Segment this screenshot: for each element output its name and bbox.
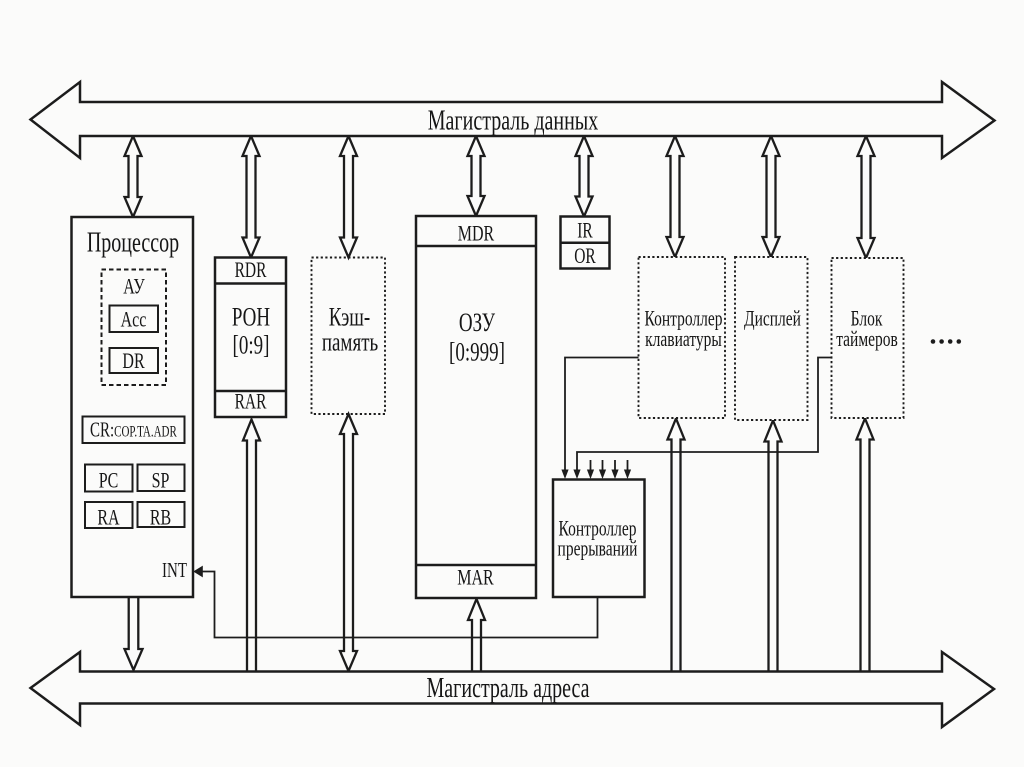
svg-text:прерываний: прерываний xyxy=(558,537,638,561)
block Блок таймеров (dashed) xyxy=(832,258,904,418)
arrow addressbus-MAR xyxy=(468,599,485,671)
register DR xyxy=(110,348,159,373)
svg-text:Магистраль адреса: Магистраль адреса xyxy=(427,673,590,704)
arrow IR-databus xyxy=(576,136,593,217)
svg-text:Acc: Acc xyxy=(121,308,147,332)
wire IRQ stub xyxy=(627,460,629,471)
register SP xyxy=(138,465,185,492)
arrow addressbus-display xyxy=(765,421,782,672)
wire interrupt-controller to INT xyxy=(198,572,598,638)
arrow MDR-databus xyxy=(468,136,485,216)
arrow display-databus xyxy=(763,136,780,257)
register RA xyxy=(85,502,133,528)
block Контроллер прерываний xyxy=(553,480,645,598)
svg-text:[0:999]: [0:999] xyxy=(449,336,505,366)
arrowhead IRQ xyxy=(561,470,568,480)
svg-text:PC: PC xyxy=(99,469,119,493)
svg-text:MDR: MDR xyxy=(458,222,494,246)
ellipsis dots xyxy=(931,339,936,344)
arrow timers-databus xyxy=(858,136,875,258)
block АУ (dashed) xyxy=(102,270,167,386)
svg-text:INT: INT xyxy=(162,559,187,582)
register PC xyxy=(85,465,133,492)
svg-text:Магистраль данных: Магистраль данных xyxy=(428,105,598,136)
svg-text:RDR: RDR xyxy=(235,259,267,283)
arrow addressbus-timers xyxy=(857,419,874,672)
svg-text:OR: OR xyxy=(574,245,596,269)
block Процессор xyxy=(72,217,194,597)
arrow RDR-databus xyxy=(243,136,260,258)
data bus (Магистраль данных) xyxy=(31,82,995,158)
svg-text:РОН: РОН xyxy=(232,301,270,331)
arrowhead IRQ xyxy=(624,470,631,480)
register CR xyxy=(83,417,185,444)
svg-text:RAR: RAR xyxy=(235,390,267,414)
arrow cache-addressbus xyxy=(340,414,357,671)
arrowhead IRQ xyxy=(573,470,580,480)
svg-text:[0:9]: [0:9] xyxy=(233,329,270,359)
svg-text:IR: IR xyxy=(577,219,593,243)
arrow processor-addressbus xyxy=(125,598,143,670)
block Дисплей (dashed) xyxy=(735,257,808,420)
svg-text:SP: SP xyxy=(152,469,170,493)
arrow addressbus-RAR xyxy=(243,420,260,672)
svg-text:таймеров: таймеров xyxy=(836,328,898,352)
arrow keyboard-databus xyxy=(667,136,684,257)
svg-text:ОЗУ: ОЗУ xyxy=(459,307,496,337)
block Кэш-память (dashed) xyxy=(312,258,386,415)
svg-text:Процессор: Процессор xyxy=(87,227,179,258)
wire IRQ stub xyxy=(614,460,616,471)
wire IRQ stub xyxy=(590,460,592,471)
register RB xyxy=(138,502,185,527)
svg-text:MAR: MAR xyxy=(457,566,493,590)
arrow cache-databus xyxy=(340,136,357,258)
svg-text:RA: RA xyxy=(97,506,119,530)
wire keyboard IRQ xyxy=(565,358,639,472)
block РОН xyxy=(215,258,286,418)
svg-text:Дисплей: Дисплей xyxy=(744,307,801,331)
arrow processor-databus xyxy=(125,136,142,217)
svg-text:DR: DR xyxy=(122,350,144,374)
address bus (Магистраль адреса) xyxy=(31,652,995,727)
arrowhead IRQ xyxy=(611,470,618,480)
register Acc xyxy=(110,306,159,333)
svg-text:RB: RB xyxy=(150,506,171,530)
block ОЗУ xyxy=(416,216,536,598)
wire IRQ stub xyxy=(602,460,604,471)
arrowhead IRQ xyxy=(587,470,594,480)
arrowhead INT xyxy=(193,566,203,578)
svg-text:память: память xyxy=(322,326,378,356)
block Контроллер клавиатуры (dashed) xyxy=(639,257,726,418)
arrow addressbus-keyboard xyxy=(668,419,685,672)
arrowhead IRQ xyxy=(599,470,606,480)
svg-text:АУ: АУ xyxy=(123,275,145,299)
wire timers IRQ xyxy=(577,358,832,472)
registers IR/OR xyxy=(561,217,610,269)
svg-text:клавиатуры: клавиатуры xyxy=(645,328,722,352)
